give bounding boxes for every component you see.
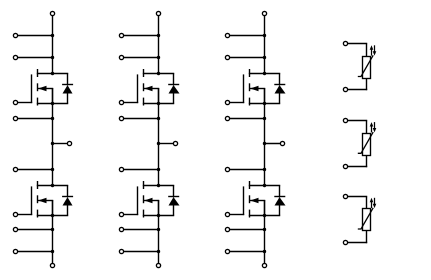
- junction: leg 2 lower aux stub 2 at bus: [157, 250, 160, 253]
- terminal: leg 3 source-sense stub: [225, 116, 229, 120]
- Q3 source tap: [143, 103, 174, 105]
- junction: leg 1 Q2 drain-sense stub at bus: [51, 168, 54, 171]
- Q2 source/body arrow line: [38, 200, 53, 202]
- junction: leg 3 bus at Q5 drain: [263, 72, 266, 75]
- D2 anode triangle: [63, 197, 73, 205]
- R2 thermistor diagonal stroke with foot: [358, 132, 373, 153]
- R3 thermistor diagonal stroke with foot: [358, 208, 373, 229]
- terminal: leg 1 phase output (AC): [67, 141, 71, 145]
- Q1 gate bar: [31, 74, 33, 103]
- Q2 channel dash (drain): [37, 181, 39, 189]
- wire: leg 3 bus, top terminal to Q5 drain line: [264, 16, 266, 75]
- Q6 source arrow head: [250, 198, 258, 203]
- junction: leg 3 upper aux stub 2 at bus: [263, 56, 266, 59]
- D5 anode wire: [279, 93, 281, 104]
- wire: R3 bottom lead horizontal: [348, 242, 368, 244]
- wire: R1 bottom lead horizontal: [348, 89, 368, 91]
- D3 anode triangle: [169, 85, 180, 93]
- terminal: R1 bottom: [343, 87, 347, 91]
- junction: leg 1 phase output at bus: [51, 142, 54, 145]
- wire: leg 2 Q3 gate lead: [124, 102, 139, 104]
- junction: leg 3 bus at Q6 source: [263, 214, 266, 217]
- R3 up arrow head: [370, 198, 374, 202]
- Q3 channel dash (drain): [143, 69, 145, 77]
- terminal: leg 3 upper aux stub 2: [225, 55, 229, 59]
- terminal: R3 bottom: [343, 240, 347, 244]
- wire: leg 2 phase output lead: [158, 143, 174, 145]
- diode D5 (freewheel): [274, 73, 285, 103]
- D6 cathode bar: [274, 196, 285, 198]
- wire: leg 2 Q4 gate lead: [124, 214, 139, 216]
- MOSFET Q3: [138, 69, 175, 106]
- junction: leg 2 Q4 drain-sense stub at bus: [157, 168, 160, 171]
- junction: leg 3 Q6 drain-sense stub at bus: [263, 168, 266, 171]
- D6 cathode wire: [279, 185, 281, 197]
- D2 anode wire: [67, 205, 69, 216]
- R1 down arrow head: [373, 51, 377, 55]
- wire: leg 3 lower aux stub 1 lead: [230, 229, 266, 231]
- terminal: leg 1 lower aux stub 2: [13, 249, 17, 253]
- Q6 source connector: [264, 200, 266, 216]
- Q5 channel dash (body): [249, 83, 251, 91]
- MOSFET Q1: [32, 69, 69, 106]
- wire: leg 3 source-sense stub lead: [230, 118, 266, 120]
- junction: leg 1 bus at Q1 drain: [51, 72, 54, 75]
- terminal: leg 1 Q2 gate: [13, 212, 17, 216]
- terminal: leg 2 upper aux stub 1: [119, 33, 123, 37]
- junction: leg 2 upper aux stub 1 at bus: [157, 34, 160, 37]
- junction: leg 3 bus at Q5 source: [263, 102, 266, 105]
- Q6 channel dash (body): [249, 195, 251, 203]
- wire: leg 3 upper aux stub 2 lead: [230, 57, 266, 59]
- D4 cathode wire: [173, 185, 175, 197]
- Q1 channel dash (drain): [37, 69, 39, 77]
- D2 cathode bar: [62, 196, 73, 198]
- R3 down arrow shaft: [374, 198, 376, 206]
- junction: leg 2 phase output at bus: [157, 142, 160, 145]
- wire: leg 2 Q4 drain-sense stub lead: [124, 169, 160, 171]
- D3 cathode wire: [173, 73, 175, 85]
- wire: leg 3 Q5 gate lead: [230, 102, 245, 104]
- terminal: leg 2 Q4 gate: [119, 212, 123, 216]
- junction: leg 2 bus at Q3 drain: [157, 72, 160, 75]
- Q5 channel dash (drain): [249, 69, 251, 77]
- terminal: R1 top: [343, 41, 347, 45]
- R1 thermistor diagonal stroke with foot: [358, 55, 373, 76]
- terminal: leg 3 lower aux stub 2: [225, 249, 229, 253]
- R1 up arrow head: [370, 45, 374, 49]
- D1 anode wire: [67, 93, 69, 104]
- D5 cathode wire: [279, 73, 281, 85]
- resistor R2 body: [363, 134, 371, 156]
- Q4 channel dash (drain): [143, 181, 145, 189]
- Q3 source/body arrow line: [144, 88, 159, 90]
- wire: R2 top lead vertical: [366, 121, 368, 134]
- wire: leg 3 bottom bus (Q6 source to bottom terminal): [264, 201, 266, 264]
- D3 cathode bar: [168, 84, 179, 86]
- terminal: leg 2 lower aux stub 2: [119, 249, 123, 253]
- junction: leg 3 phase output at bus: [263, 142, 266, 145]
- Q4 channel dash (body): [143, 195, 145, 203]
- Q6 channel dash (source): [249, 210, 251, 218]
- wire: leg 3 mid bus (Q5 source to Q6 drain): [264, 89, 266, 187]
- Q5 drain tap: [249, 73, 280, 75]
- Q2 gate bar: [31, 186, 33, 215]
- wire: leg 2 mid bus (Q3 source to Q4 drain): [158, 89, 160, 187]
- D6 anode triangle: [275, 197, 286, 205]
- D1 cathode bar: [62, 84, 73, 86]
- wire: leg 1 lower aux stub 1 lead: [18, 229, 54, 231]
- terminal: leg 1 lower aux stub 1: [13, 227, 17, 231]
- junction: leg 2 bus at Q4 source: [157, 214, 160, 217]
- resistor R1 body: [363, 57, 371, 79]
- wire: R1 bottom lead vertical: [366, 79, 368, 91]
- wire: R1 top lead vertical: [366, 44, 368, 57]
- junction: leg 3 source-sense stub at bus: [263, 117, 266, 120]
- terminal: leg 2 phase output (AC): [173, 141, 177, 145]
- Q6 gate bar: [243, 186, 245, 215]
- Q1 drain tap: [37, 73, 68, 75]
- wire: R2 top lead horizontal: [348, 120, 368, 122]
- terminal: leg 3 phase output (AC): [280, 141, 284, 145]
- terminal: R2 bottom: [343, 164, 347, 168]
- wire: leg 1 upper aux stub 1 lead: [18, 35, 54, 37]
- terminal: leg 1 Q2 drain-sense stub: [13, 167, 17, 171]
- junction: leg 2 source-sense stub at bus: [157, 117, 160, 120]
- Q3 drain tap: [143, 73, 174, 75]
- Q4 gate bar: [137, 186, 139, 215]
- terminal: leg 3 lower aux stub 1: [225, 227, 229, 231]
- wire: leg 1 source-sense stub lead: [18, 118, 54, 120]
- D2 cathode wire: [67, 185, 69, 197]
- Q6 source tap: [249, 215, 280, 217]
- diode D6 (freewheel): [274, 185, 285, 215]
- R1 down arrow shaft: [374, 45, 376, 53]
- Q1 source tap: [37, 103, 68, 105]
- Q1 channel dash (source): [37, 98, 39, 106]
- junction: leg 3 lower aux stub 1 at bus: [263, 228, 266, 231]
- diode D4 (freewheel): [168, 185, 179, 215]
- junction: leg 1 upper aux stub 1 at bus: [51, 34, 54, 37]
- Q3 source arrow head: [144, 86, 152, 91]
- wire: leg 1 lower aux stub 2 lead: [18, 251, 54, 253]
- terminal: leg 3 Q6 gate: [225, 212, 229, 216]
- terminal: leg 2 bottom (source / DC-): [156, 263, 160, 267]
- terminal: leg 1 upper aux stub 1: [13, 33, 17, 37]
- D4 cathode bar: [168, 196, 179, 198]
- MOSFET Q2: [32, 181, 69, 218]
- wire: leg 2 upper aux stub 2 lead: [124, 57, 160, 59]
- Q4 source/body arrow line: [144, 200, 159, 202]
- junction: leg 1 bus at Q1 source: [51, 102, 54, 105]
- Q3 channel dash (source): [143, 98, 145, 106]
- D6 anode wire: [279, 205, 281, 216]
- Q2 drain tap: [37, 185, 68, 187]
- Q3 source connector: [158, 88, 160, 104]
- R2 down arrow shaft: [374, 122, 376, 130]
- wire: leg 2 upper aux stub 1 lead: [124, 35, 160, 37]
- wire: leg 2 lower aux stub 1 lead: [124, 229, 160, 231]
- Q3 channel dash (body): [143, 83, 145, 91]
- wire: leg 1 upper aux stub 2 lead: [18, 57, 54, 59]
- MOSFET Q6: [244, 181, 281, 218]
- wire: R2 bottom lead horizontal: [348, 166, 368, 168]
- MOSFET Q4: [138, 181, 175, 218]
- junction: leg 3 bus at Q6 drain: [263, 184, 266, 187]
- diode D3 (freewheel): [168, 73, 179, 103]
- Q5 source/body arrow line: [250, 88, 265, 90]
- junction: leg 1 bus at Q2 drain: [51, 184, 54, 187]
- junction: leg 2 bus at Q4 drain: [157, 184, 160, 187]
- wire: leg 1 Q2 drain-sense stub lead: [18, 169, 54, 171]
- diode D2 (freewheel): [62, 185, 73, 215]
- D3 anode wire: [173, 93, 175, 104]
- wire: leg 3 upper aux stub 1 lead: [230, 35, 266, 37]
- wire: leg 3 Q6 gate lead: [230, 214, 245, 216]
- terminal: leg 1 top (drain / DC+): [50, 11, 54, 15]
- wire: leg 3 lower aux stub 2 lead: [230, 251, 266, 253]
- R2 down arrow head: [373, 128, 377, 132]
- terminal: leg 3 bottom (source / DC-): [262, 263, 266, 267]
- terminal: leg 2 Q3 gate: [119, 100, 123, 104]
- wire: R3 top lead horizontal: [348, 196, 368, 198]
- Q1 source connector: [52, 88, 54, 104]
- R3 down arrow head: [373, 204, 377, 208]
- wire: leg 2 source-sense stub lead: [124, 118, 160, 120]
- R2 up arrow shaft: [371, 124, 373, 132]
- Q2 channel dash (body): [37, 195, 39, 203]
- wire: leg 2 bus, top terminal to Q3 drain line: [158, 16, 160, 75]
- wire: leg 1 phase output lead: [52, 143, 68, 145]
- Q2 source arrow head: [38, 198, 46, 203]
- Q4 channel dash (source): [143, 210, 145, 218]
- Q4 drain tap: [143, 185, 174, 187]
- wire: leg 1 Q2 gate lead: [18, 214, 33, 216]
- MOSFET Q5: [244, 69, 281, 106]
- wire: leg 1 mid bus (Q1 source to Q2 drain): [52, 89, 54, 187]
- terminal: leg 1 bottom (source / DC-): [50, 263, 54, 267]
- wire: R2 bottom lead vertical: [366, 156, 368, 168]
- wire: leg 3 Q6 drain-sense stub lead: [230, 169, 266, 171]
- terminal: leg 3 Q5 gate: [225, 100, 229, 104]
- D4 anode wire: [173, 205, 175, 216]
- junction: leg 2 upper aux stub 2 at bus: [157, 56, 160, 59]
- terminal: R3 top: [343, 194, 347, 198]
- junction: leg 1 upper aux stub 2 at bus: [51, 56, 54, 59]
- diode D1 (freewheel): [62, 73, 73, 103]
- Q4 source tap: [143, 215, 174, 217]
- wire: leg 2 bottom bus (Q4 source to bottom terminal): [158, 201, 160, 264]
- terminal: leg 2 top (drain / DC+): [156, 11, 160, 15]
- Q1 source arrow head: [38, 86, 46, 91]
- Q4 source arrow head: [144, 198, 152, 203]
- wire: leg 3 phase output lead: [264, 143, 281, 145]
- Q5 source arrow head: [250, 86, 258, 91]
- D5 cathode bar: [274, 84, 285, 86]
- junction: leg 3 upper aux stub 1 at bus: [263, 34, 266, 37]
- terminal: leg 3 top (drain / DC+): [262, 11, 266, 15]
- junction: leg 1 lower aux stub 1 at bus: [51, 228, 54, 231]
- D1 cathode wire: [67, 73, 69, 85]
- Q2 source connector: [52, 200, 54, 216]
- terminal: leg 3 Q6 drain-sense stub: [225, 167, 229, 171]
- junction: leg 2 lower aux stub 1 at bus: [157, 228, 160, 231]
- junction: leg 1 bus at Q2 source: [51, 214, 54, 217]
- R3 up arrow shaft: [371, 200, 373, 208]
- wire: leg 2 lower aux stub 2 lead: [124, 251, 160, 253]
- R1 up arrow shaft: [371, 47, 373, 55]
- Q5 channel dash (source): [249, 98, 251, 106]
- Q1 source/body arrow line: [38, 88, 53, 90]
- junction: leg 3 lower aux stub 2 at bus: [263, 250, 266, 253]
- wire: R3 bottom lead vertical: [366, 231, 368, 244]
- wire: leg 1 bus, top terminal to Q1 drain line: [52, 16, 54, 75]
- Q3 gate bar: [137, 74, 139, 103]
- terminal: leg 1 source-sense stub: [13, 116, 17, 120]
- terminal: leg 1 upper aux stub 2: [13, 55, 17, 59]
- resistor R3 body: [363, 209, 371, 231]
- wire: R3 top lead vertical: [366, 197, 368, 209]
- junction: leg 1 lower aux stub 2 at bus: [51, 250, 54, 253]
- junction: leg 2 bus at Q3 source: [157, 102, 160, 105]
- terminal: leg 1 Q1 gate: [13, 100, 17, 104]
- terminal: leg 2 lower aux stub 1: [119, 227, 123, 231]
- wire: leg 1 Q1 gate lead: [18, 102, 33, 104]
- Q1 channel dash (body): [37, 83, 39, 91]
- terminal: leg 2 upper aux stub 2: [119, 55, 123, 59]
- Q5 source connector: [264, 88, 266, 104]
- Q6 drain tap: [249, 185, 280, 187]
- D1 anode triangle: [63, 85, 73, 93]
- Q5 gate bar: [243, 74, 245, 103]
- Q2 channel dash (source): [37, 210, 39, 218]
- terminal: R2 top: [343, 118, 347, 122]
- Q5 source tap: [249, 103, 280, 105]
- Q6 channel dash (drain): [249, 181, 251, 189]
- junction: leg 1 source-sense stub at bus: [51, 117, 54, 120]
- terminal: leg 2 source-sense stub: [119, 116, 123, 120]
- terminal: leg 3 upper aux stub 1: [225, 33, 229, 37]
- R2 up arrow head: [370, 122, 374, 126]
- wire: R1 top lead horizontal: [348, 43, 368, 45]
- D5 anode triangle: [275, 85, 286, 93]
- Q6 source/body arrow line: [250, 200, 265, 202]
- Q2 source tap: [37, 215, 68, 217]
- Q4 source connector: [158, 200, 160, 216]
- wire: leg 1 bottom bus (Q2 source to bottom terminal): [52, 201, 54, 264]
- terminal: leg 2 Q4 drain-sense stub: [119, 167, 123, 171]
- D4 anode triangle: [169, 197, 180, 205]
